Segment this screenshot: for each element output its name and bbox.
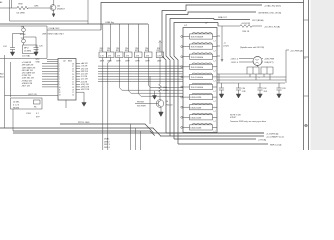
svg-text:12: 12 xyxy=(59,92,61,94)
wire: U2 bottom stub xyxy=(65,100,67,108)
svg-text:4.7K: 4.7K xyxy=(126,55,130,57)
svg-text:A1: A1 xyxy=(0,1,3,4)
wire: pack4 weave xyxy=(128,58,183,94)
ground at C33 xyxy=(277,94,282,98)
svg-text:L-P: L-P xyxy=(184,25,188,27)
svg-text:16 MHZ: 16 MHZ xyxy=(24,51,32,53)
svg-text:23: 23 xyxy=(72,76,74,78)
svg-text:13: 13 xyxy=(59,95,61,97)
net +5V PWR xyxy=(286,50,289,83)
svg-text:L-7: L-7 xyxy=(214,71,217,73)
left border wire xyxy=(4,55,6,128)
U2 left pin row 6 xyxy=(42,76,58,78)
svg-text:64 1/8W: 64 1/8W xyxy=(17,13,26,15)
sheet edge tick marks xyxy=(304,20,309,96)
U2 right pin row 5 xyxy=(76,73,80,75)
ground at C32 xyxy=(258,94,263,98)
resistor R6 inside J4 xyxy=(34,100,41,104)
U2 left pin row 3 xyxy=(42,68,58,70)
svg-text:DRD 4: DRD 4 xyxy=(104,147,110,149)
svg-text:11: 11 xyxy=(59,89,61,91)
wire: osc right branch xyxy=(24,37,37,48)
svg-text:C24: C24 xyxy=(3,46,8,48)
svg-text:+RST 2/8: +RST 2/8 xyxy=(81,89,90,91)
driver module rows xyxy=(190,33,213,39)
wire: motor label leads xyxy=(239,59,263,63)
inductor L2 xyxy=(192,43,212,44)
svg-text:1/8W: 1/8W xyxy=(100,61,105,63)
svg-text:PB RST: PB RST xyxy=(137,101,145,103)
wire: motor shaft stub xyxy=(257,66,259,68)
bottom rail 3 xyxy=(13,131,155,136)
svg-text:20: 20 xyxy=(72,84,74,86)
wire loop 1 around driver box xyxy=(162,11,186,134)
ground below Q4 xyxy=(159,112,164,117)
U2 left pin row 8 xyxy=(42,81,58,83)
resistor pack RP3 xyxy=(116,52,124,58)
jumper block J4 xyxy=(11,98,43,109)
svg-text:C32: C32 xyxy=(263,88,266,90)
svg-text:19: 19 xyxy=(72,87,74,89)
svg-text:-5VDC 4: -5VDC 4 xyxy=(231,62,238,64)
svg-text:16.000: 16.000 xyxy=(20,34,27,36)
svg-text:6: 6 xyxy=(59,76,60,78)
wire: pack3 weave xyxy=(119,58,183,91)
wire loop 2 around driver box xyxy=(166,15,188,137)
terminal box A xyxy=(247,67,259,74)
driver box right stubs xyxy=(217,36,220,56)
wire: crystal chain xyxy=(23,26,25,45)
svg-text:B02: B02 xyxy=(0,74,4,76)
svg-text:+LOAD_IRQ (G15): +LOAD_IRQ (G15) xyxy=(264,4,281,7)
svg-text:Q5: Q5 xyxy=(57,5,61,7)
svg-text:C204: C204 xyxy=(26,113,32,115)
svg-text:+RD GATE 2/8: +RD GATE 2/8 xyxy=(22,72,36,75)
svg-text:1/4 XTAL: 1/4 XTAL xyxy=(22,55,31,58)
sheet edge double line right xyxy=(304,0,309,150)
capacitor C33 xyxy=(276,83,281,94)
svg-text:-RDY 2/8: -RDY 2/8 xyxy=(22,86,31,88)
svg-text:0 1 2 3: 0 1 2 3 xyxy=(13,105,20,107)
svg-text:8051: 8051 xyxy=(68,61,72,63)
svg-text:+5: +5 xyxy=(224,43,227,45)
svg-text:TDK#R 680UH: TDK#R 680UH xyxy=(191,67,204,69)
wire: to R45 xyxy=(159,58,161,85)
svg-text:4: 4 xyxy=(304,58,306,60)
svg-text:10: 10 xyxy=(59,87,61,89)
svg-text:24: 24 xyxy=(72,74,74,76)
ground at C30 xyxy=(236,94,241,98)
svg-text:-5VB(OPT): -5VB(OPT) xyxy=(264,62,274,64)
svg-text:4/7UF?: 4/7UF? xyxy=(230,117,236,119)
wires: pack outputs down xyxy=(102,58,104,151)
svg-text:27: 27 xyxy=(72,66,74,68)
U2 right pin row 7 xyxy=(76,78,80,80)
svg-text:DS26LS32M: DS26LS32M xyxy=(191,97,202,99)
resistor pack RP6 xyxy=(145,52,153,58)
svg-text:4.7K: 4.7K xyxy=(100,55,104,57)
terminal box B xyxy=(261,67,273,74)
svg-text:-RD DAT 2/8: -RD DAT 2/8 xyxy=(22,69,34,72)
wires: terminal drops xyxy=(250,74,270,80)
gray margin strip right of schematic sheet xyxy=(311,0,334,150)
svg-text:+5V_PWR (A): +5V_PWR (A) xyxy=(290,49,303,52)
wire: weave drop to bottom rail xyxy=(149,76,151,124)
svg-text:DS26LS32M: DS26LS32M xyxy=(191,128,202,130)
svg-text:8: 8 xyxy=(59,82,60,84)
wire: Q4 base xyxy=(135,103,158,105)
svg-text:18: 18 xyxy=(72,89,74,91)
svg-text:.1UF: .1UF xyxy=(263,91,268,93)
wire: Q5 emitter down xyxy=(53,10,55,14)
U2 right pin row 8 xyxy=(76,81,80,83)
svg-text:1/8W: 1/8W xyxy=(116,61,121,63)
U2 power pins top xyxy=(47,59,58,61)
svg-text:R58: R58 xyxy=(19,4,24,6)
svg-text:16: 16 xyxy=(72,95,74,97)
svg-text:TDK#R 680UH: TDK#R 680UH xyxy=(191,47,204,49)
svg-text:+CLKA 2/8: +CLKA 2/8 xyxy=(22,61,33,64)
microprocessor U2 xyxy=(58,59,76,101)
U2 right pin row 3 xyxy=(76,68,80,70)
receiver U6 xyxy=(192,124,212,125)
ground at U2 xyxy=(76,92,84,102)
wire: bottom pair vertical xyxy=(131,124,141,150)
svg-text:+5V_RST_PU (B): +5V_RST_PU (B) xyxy=(264,26,280,28)
svg-text:CLKA OSC: CLKA OSC xyxy=(49,27,60,30)
svg-text:MPU: MPU xyxy=(24,47,29,49)
svg-text:SIG PWR: SIG PWR xyxy=(137,106,146,108)
svg-text:2: 2 xyxy=(59,66,60,68)
svg-text:L-7: L-7 xyxy=(214,50,217,52)
receiver U3 xyxy=(192,93,212,94)
oscillator enclosure box xyxy=(0,26,47,58)
svg-text:-WR DAT 2/8: -WR DAT 2/8 xyxy=(22,64,35,67)
svg-text:C30: C30 xyxy=(242,88,245,90)
svg-text:Terminate DS26 only, see conn: Terminate DS26 only, see conn pg on driv… xyxy=(230,120,266,123)
U2 signal runs to line drivers xyxy=(98,66,183,82)
svg-text:C33: C33 xyxy=(282,88,285,90)
svg-text:4.7K: 4.7K xyxy=(157,55,161,57)
svg-text:21: 21 xyxy=(72,82,74,84)
wire: box edge drop xyxy=(218,74,220,83)
svg-text:C25: C25 xyxy=(39,45,44,47)
svg-text:2N2907: 2N2907 xyxy=(57,8,65,10)
U2 left pin row 5 xyxy=(42,73,58,75)
U2 left pin row 9 xyxy=(42,83,58,85)
wires: pull-up verticals to DRB rail xyxy=(110,24,148,52)
resistor pack RP4 xyxy=(125,52,133,58)
resistor R30 xyxy=(240,25,252,28)
long wire to left edge xyxy=(102,24,104,52)
U2 right pin row 6 xyxy=(76,76,80,78)
svg-text:1/8W: 1/8W xyxy=(135,61,140,63)
svg-text:DS26LS32M: DS26LS32M xyxy=(191,117,202,119)
svg-text:B04: B04 xyxy=(0,77,4,79)
svg-text:+5V2(OR): +5V2(OR) xyxy=(241,23,250,25)
U2 left pin row 2 xyxy=(42,65,58,67)
net +12 DRADFT xyxy=(160,135,264,137)
line driver array enclosure xyxy=(183,28,217,133)
resistor pack RP5 xyxy=(135,52,143,58)
inductor L5 xyxy=(192,73,212,74)
wire loop 3 around driver box xyxy=(170,19,214,140)
svg-text:L-7: L-7 xyxy=(214,61,217,63)
wire: stub from top edge xyxy=(11,0,13,8)
inductor L3 xyxy=(192,53,212,54)
svg-text:-MOT ON: -MOT ON xyxy=(28,94,37,96)
svg-text:-5 RT (A): -5 RT (A) xyxy=(258,138,266,141)
inductor L6 xyxy=(192,83,212,84)
U2 right pin row 4 xyxy=(76,70,80,72)
wire: left bus into U2 xyxy=(5,95,59,97)
wire: J4 down xyxy=(12,109,14,131)
svg-text:DRC 3: DRC 3 xyxy=(104,144,110,146)
svg-text:TDK#R 680UH: TDK#R 680UH xyxy=(191,87,204,89)
svg-text:2N2222: 2N2222 xyxy=(166,104,174,106)
svg-text:RNF (C,D,A): RNF (C,D,A) xyxy=(270,143,282,146)
svg-text:+5VB_PWR: +5VB_PWR xyxy=(264,59,275,61)
wire: CLKA OSC run to top rail corner xyxy=(47,29,101,31)
wire: +5V pullup rail xyxy=(218,25,240,27)
svg-text:3: 3 xyxy=(59,69,60,71)
svg-text:L-7: L-7 xyxy=(214,121,217,123)
svg-text:L-7: L-7 xyxy=(214,40,217,42)
receiver U5 xyxy=(192,113,212,114)
resistor pack RP1 xyxy=(99,52,107,58)
wire: R58 to Q5 xyxy=(28,7,50,9)
svg-text:28: 28 xyxy=(72,63,74,65)
wire: pack6 weave xyxy=(148,58,183,88)
svg-text:(OUT): (OUT) xyxy=(224,46,230,48)
receiver U4 xyxy=(192,103,212,104)
resistor R45 xyxy=(159,84,162,100)
U2 right pin row 2 xyxy=(76,65,80,67)
capacitor C30 xyxy=(236,83,241,94)
svg-text:4.7: 4.7 xyxy=(36,113,40,115)
bottom rail 2 xyxy=(0,128,161,136)
svg-text:GND: GND xyxy=(36,61,41,63)
svg-text:25: 25 xyxy=(72,71,74,73)
U2 right pin row 9 xyxy=(76,83,80,85)
svg-text:22: 22 xyxy=(72,79,74,81)
top-left enclosure box xyxy=(10,0,89,24)
svg-text:NOTE: 8 2/8: NOTE: 8 2/8 xyxy=(230,114,241,116)
svg-text:L-7: L-7 xyxy=(214,81,217,83)
svg-text:7: 7 xyxy=(59,79,60,81)
bottom rail 4 xyxy=(13,132,264,134)
wire: top rail corner xyxy=(101,3,304,31)
net -5 RT xyxy=(174,138,256,140)
inductor L1 xyxy=(192,33,212,34)
resistor R58 xyxy=(17,6,28,9)
svg-text:26: 26 xyxy=(72,69,74,71)
long wire below top box xyxy=(0,23,148,25)
net -RST xyxy=(214,19,250,20)
svg-text:HS MS: HS MS xyxy=(13,107,20,109)
net +5V RST PU xyxy=(252,25,262,27)
svg-text:17: 17 xyxy=(72,92,74,94)
U2 right pin row 11 xyxy=(76,89,80,91)
svg-text:J4 SEL: J4 SEL xyxy=(13,101,20,103)
power bus lines xyxy=(217,74,286,83)
resistor pack RP2 xyxy=(107,52,115,58)
svg-text:+WR GATE 2/8: +WR GATE 2/8 xyxy=(22,66,37,69)
svg-text:4: 4 xyxy=(59,71,60,73)
svg-text:9: 9 xyxy=(59,84,60,86)
U2 right pin row 1 xyxy=(76,63,80,65)
svg-text:1: 1 xyxy=(59,63,60,65)
svg-text:.1UF: .1UF xyxy=(242,91,247,93)
svg-text:DRA OUT: DRA OUT xyxy=(218,16,228,19)
svg-text:U2: U2 xyxy=(63,61,67,63)
wire: osc left branch xyxy=(13,34,24,48)
svg-text:TDK#R 680UH: TDK#R 680UH xyxy=(191,37,204,39)
wire: Q5 collector up xyxy=(53,0,55,5)
oscillator module X1 xyxy=(23,45,38,54)
pull-up net arrow xyxy=(159,41,161,44)
svg-text:L-7: L-7 xyxy=(214,101,217,103)
svg-text:L-7: L-7 xyxy=(214,91,217,93)
svg-text:1/8W: 1/8W xyxy=(125,61,130,63)
ground at C24 xyxy=(10,52,14,56)
net -WORKING OSD OK xyxy=(188,12,256,15)
svg-text:5: 5 xyxy=(59,74,60,76)
svg-text:TDK#R 680UH: TDK#R 680UH xyxy=(191,77,204,79)
net +LOAD IRQ xyxy=(186,5,262,11)
U2 left pin row 1 xyxy=(42,63,58,65)
capacitor C32 xyxy=(257,83,262,94)
left inner wire xyxy=(10,62,12,97)
svg-text:DS26LS32M: DS26LS32M xyxy=(191,107,202,109)
resistor pack RP7 xyxy=(156,52,164,58)
arrow to rail below Q5 xyxy=(52,14,55,17)
svg-text:CR5: CR5 xyxy=(34,6,39,8)
ground stub left of Q4 xyxy=(154,91,156,96)
svg-text:+A0 2/8: +A0 2/8 xyxy=(81,62,89,65)
wire: pack5 weave xyxy=(138,58,183,97)
svg-text:-RST (B10A): -RST (B10A) xyxy=(252,19,264,22)
svg-text:6TP: 6TP xyxy=(36,116,40,118)
bottom rail PRTCL GND xyxy=(60,124,154,133)
svg-text:DRB 2: DRB 2 xyxy=(104,141,110,143)
svg-text:-WORKING_OSD_OK (B): -WORKING_OSD_OK (B) xyxy=(258,12,281,14)
svg-text:(Spindle motor with FF PCB): (Spindle motor with FF PCB) xyxy=(240,46,264,49)
svg-text:4.7K: 4.7K xyxy=(146,55,150,57)
wire: input to R58 xyxy=(0,7,17,9)
ground at C29 xyxy=(219,94,224,98)
driver box pin circles xyxy=(181,36,183,38)
svg-text:+12_DRADFT (C,D): +12_DRADFT (C,D) xyxy=(266,135,284,138)
wire loop 4 around driver box xyxy=(174,23,218,145)
svg-text:USE 2 MHZ XTAL ONLY: USE 2 MHZ XTAL ONLY xyxy=(42,33,65,36)
svg-text:4.7K: 4.7K xyxy=(108,55,112,57)
transistor Q5 xyxy=(50,5,56,11)
svg-text:L-7: L-7 xyxy=(214,111,217,113)
wire: Q4 emitter xyxy=(160,107,162,112)
driver unit pin stubs xyxy=(183,37,217,128)
svg-text:+5VDC 4: +5VDC 4 xyxy=(230,59,238,61)
svg-text:TDK#R 680UH: TDK#R 680UH xyxy=(191,57,204,59)
U2 left pin row 4 xyxy=(42,70,58,72)
svg-text:+5_RDRV (A): +5_RDRV (A) xyxy=(266,132,279,135)
U2 left pin row 10 xyxy=(42,86,58,88)
wire: net arrow to RP7 xyxy=(159,43,161,52)
capacitor C29 xyxy=(219,83,224,94)
sheet edge circled dot xyxy=(305,124,308,127)
svg-text:4.7K: 4.7K xyxy=(117,55,121,57)
U2 left pin row 7 xyxy=(42,78,58,80)
net RNF xyxy=(178,143,268,145)
svg-text:R30 1K: R30 1K xyxy=(243,31,250,33)
svg-text:1/8W: 1/8W xyxy=(145,61,150,63)
svg-text:DRA 1: DRA 1 xyxy=(104,138,109,141)
transistor Q4 xyxy=(156,100,164,108)
svg-text:4.7K: 4.7K xyxy=(136,55,140,57)
net +5 RDRV xyxy=(166,132,264,134)
wire: pack2 drop pair xyxy=(108,58,111,151)
svg-text:R6: R6 xyxy=(34,106,36,108)
svg-text:DRB.Sig: DRB.Sig xyxy=(106,22,115,24)
ground at C25 xyxy=(34,52,38,56)
wire: +5(OUT) vertical with arrow xyxy=(221,26,223,60)
inductor L4 xyxy=(192,63,212,64)
U2 right pin row 10 xyxy=(76,86,80,88)
spindle motor M1 xyxy=(253,57,262,66)
svg-text:PRTCL GND: PRTCL GND xyxy=(78,122,90,124)
svg-text:1/8W: 1/8W xyxy=(157,61,162,63)
